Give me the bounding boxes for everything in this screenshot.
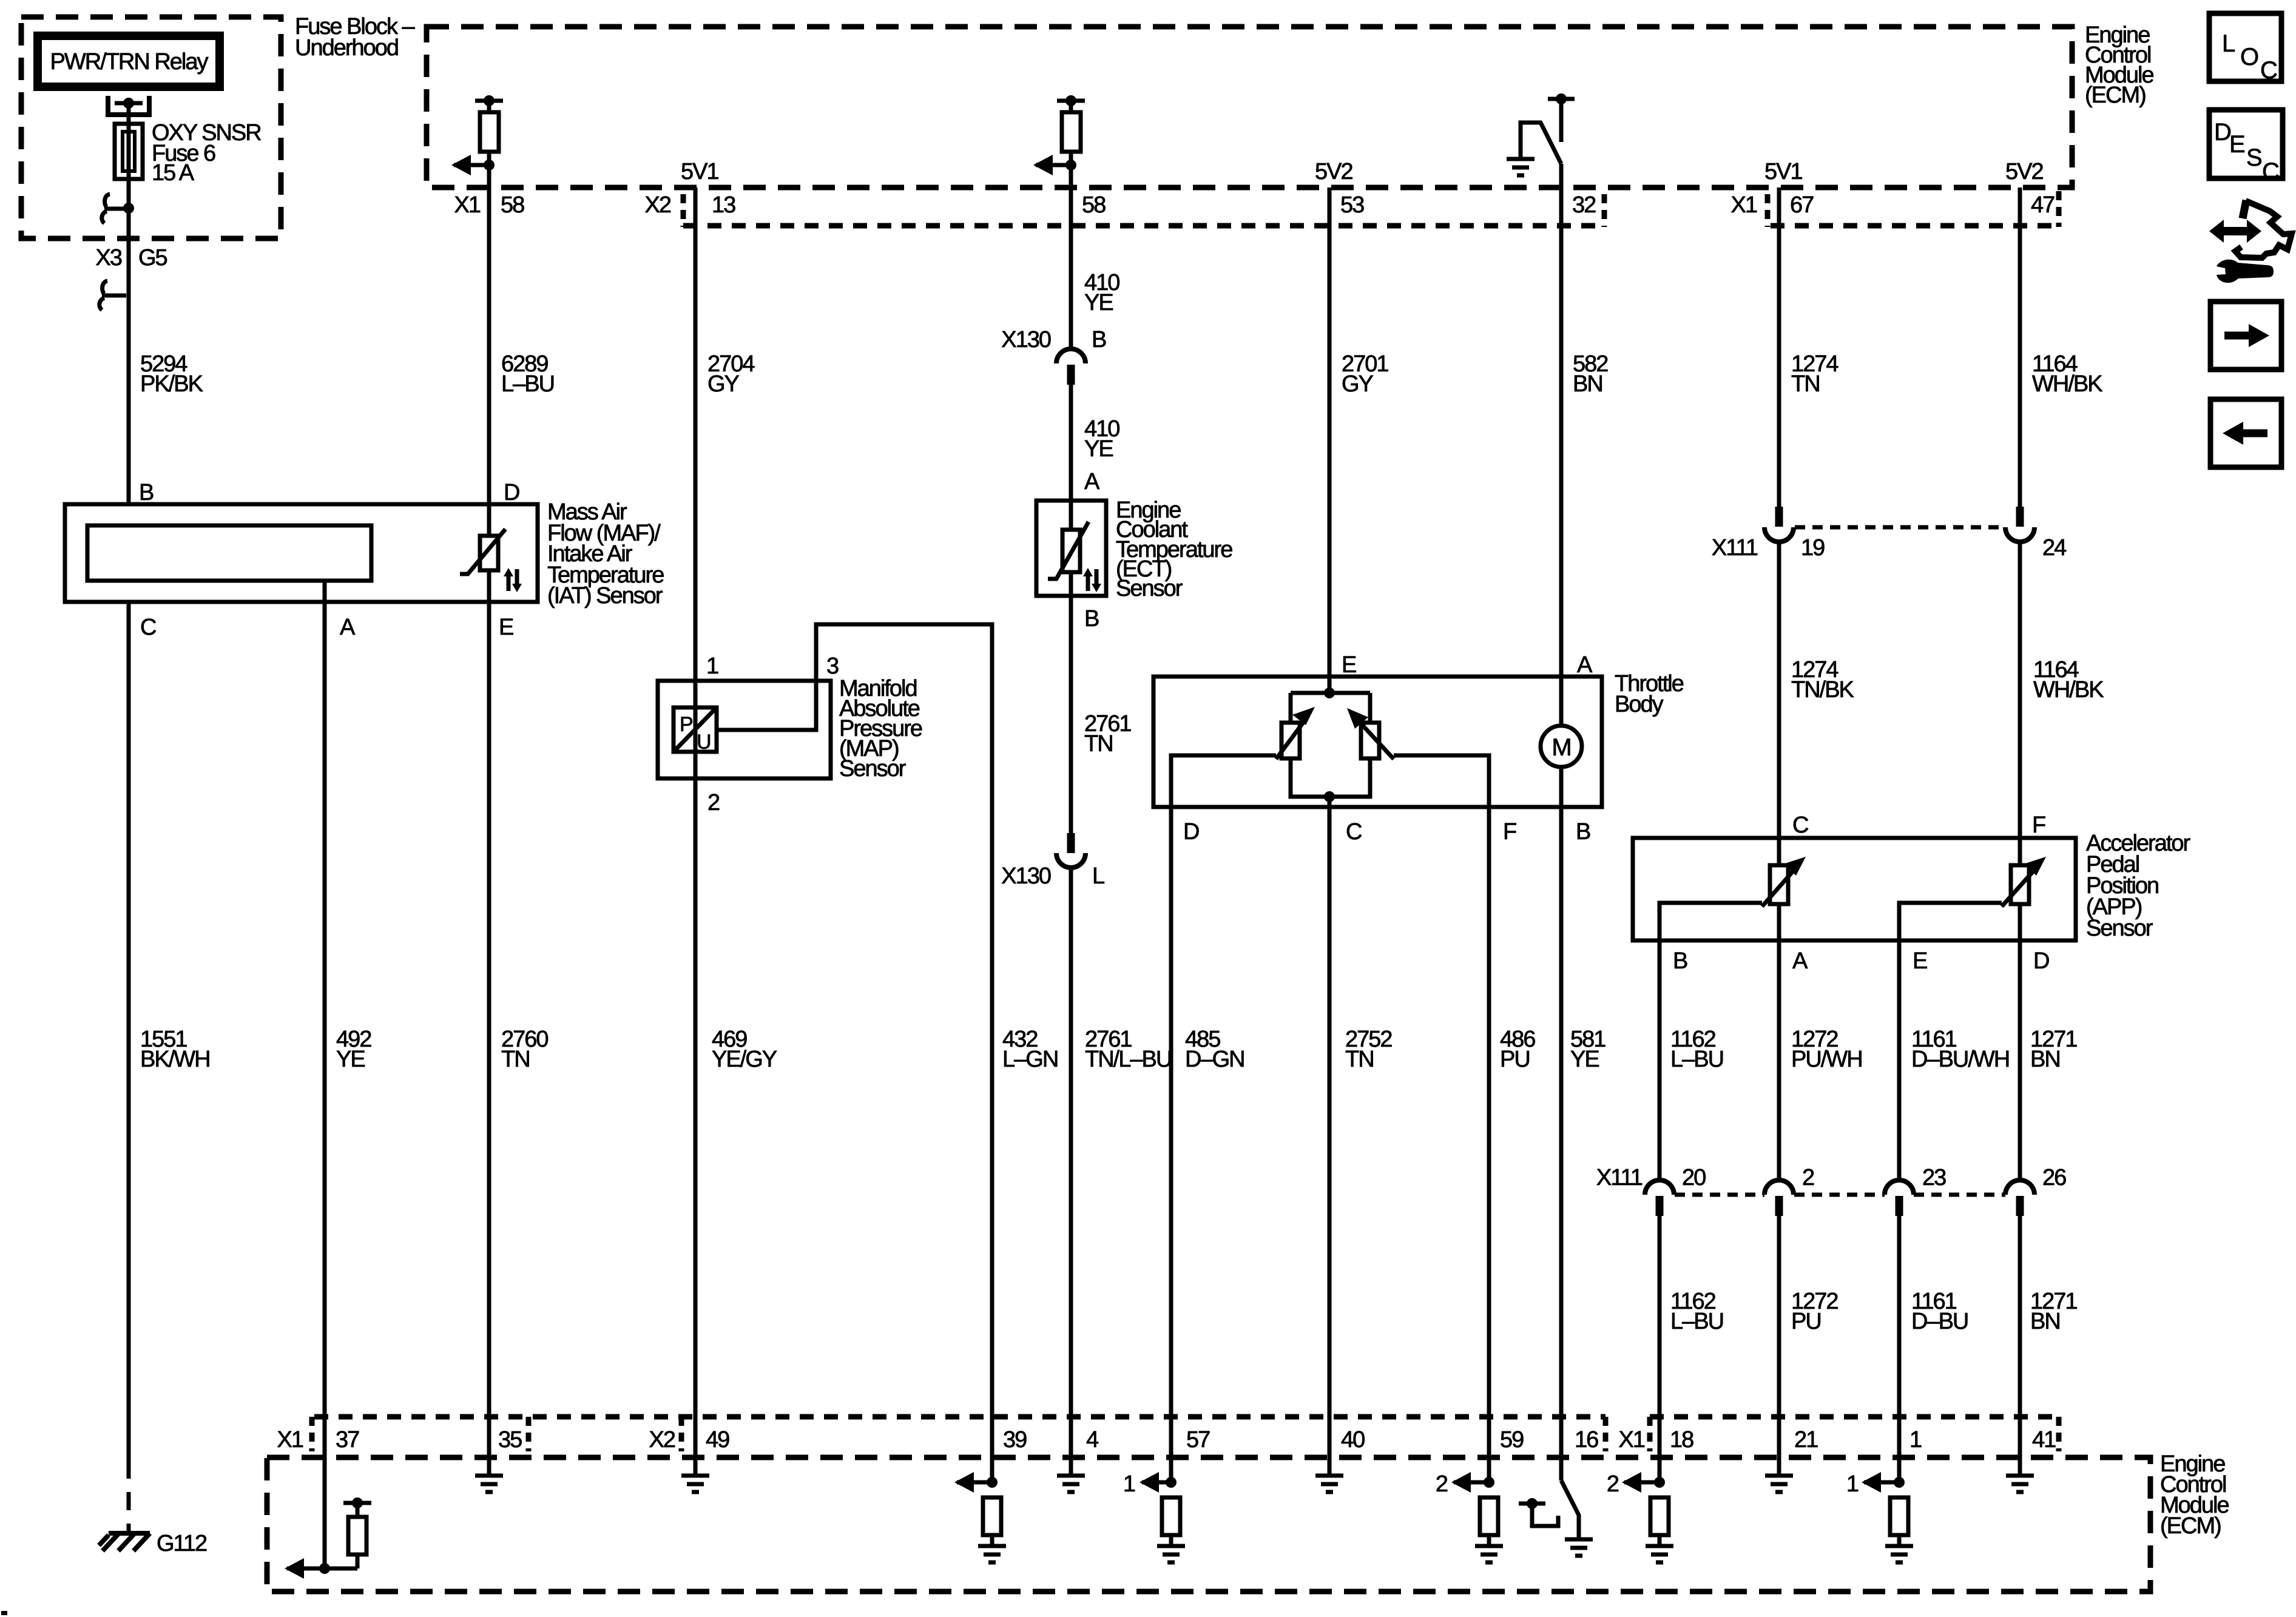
svg-text:41: 41 <box>2032 1427 2056 1453</box>
svg-text:S: S <box>2246 144 2261 171</box>
svg-text:1: 1 <box>1909 1427 1922 1453</box>
svg-text:(ECM): (ECM) <box>2085 83 2146 108</box>
svg-text:L–BU: L–BU <box>1670 1309 1723 1334</box>
svg-text:23: 23 <box>1922 1165 1946 1190</box>
svg-text:57: 57 <box>1186 1427 1210 1453</box>
svg-text:TN: TN <box>501 1047 530 1072</box>
svg-text:GY: GY <box>1342 371 1374 397</box>
svg-text:37: 37 <box>336 1427 359 1453</box>
svg-text:5V2: 5V2 <box>1315 159 1352 184</box>
svg-text:TN/L–BU: TN/L–BU <box>1085 1047 1171 1072</box>
svg-text:E: E <box>1342 652 1356 678</box>
svg-text:BN: BN <box>1573 371 1602 397</box>
svg-text:B: B <box>1673 948 1687 974</box>
svg-text:2: 2 <box>1607 1471 1619 1497</box>
svg-text:16: 16 <box>1575 1427 1598 1453</box>
svg-text:YE: YE <box>336 1047 365 1072</box>
svg-text:(ECM): (ECM) <box>2160 1513 2221 1539</box>
svg-text:D: D <box>504 480 519 505</box>
svg-text:(IAT) Sensor: (IAT) Sensor <box>547 583 663 609</box>
svg-text:G112: G112 <box>157 1531 207 1556</box>
svg-text:58: 58 <box>1082 192 1106 218</box>
svg-text:PWR/TRN Relay: PWR/TRN Relay <box>50 49 208 75</box>
svg-text:F: F <box>2032 812 2045 838</box>
svg-text:TN: TN <box>1345 1047 1374 1072</box>
svg-text:Body: Body <box>1615 692 1664 717</box>
svg-text:GY: GY <box>707 371 740 397</box>
svg-text:67: 67 <box>1790 192 1814 218</box>
svg-text:B: B <box>1576 819 1590 845</box>
svg-text:L: L <box>2222 30 2235 57</box>
svg-text:TN/BK: TN/BK <box>1791 677 1854 703</box>
svg-text:X1: X1 <box>1731 192 1757 218</box>
svg-text:2: 2 <box>1802 1165 1814 1190</box>
svg-text:F: F <box>1503 819 1516 845</box>
svg-text:E: E <box>1913 948 1927 974</box>
svg-text:C: C <box>1792 812 1808 838</box>
svg-text:2: 2 <box>1436 1471 1448 1497</box>
svg-text:C: C <box>140 615 156 640</box>
svg-text:47: 47 <box>2031 192 2055 218</box>
svg-text:C: C <box>2262 158 2279 185</box>
svg-text:2: 2 <box>707 790 720 815</box>
svg-text:A: A <box>1792 948 1808 974</box>
svg-text:B: B <box>1084 606 1099 632</box>
svg-text:4: 4 <box>1086 1427 1099 1453</box>
svg-text:YE: YE <box>1084 290 1113 316</box>
svg-text:C: C <box>1346 819 1362 845</box>
svg-text:P: P <box>680 713 692 736</box>
svg-text:21: 21 <box>1794 1427 1818 1453</box>
svg-text:E: E <box>499 615 513 640</box>
svg-text:L–BU: L–BU <box>1670 1047 1723 1072</box>
svg-text:X111: X111 <box>1596 1165 1643 1190</box>
svg-text:Sensor: Sensor <box>1116 576 1183 601</box>
svg-text:1: 1 <box>1123 1471 1135 1497</box>
svg-text:49: 49 <box>706 1427 729 1453</box>
svg-text:D: D <box>2033 948 2049 974</box>
svg-text:PU: PU <box>1500 1047 1530 1072</box>
svg-text:13: 13 <box>712 192 735 218</box>
svg-text:WH/BK: WH/BK <box>2032 371 2102 397</box>
svg-text:58: 58 <box>501 192 524 218</box>
svg-text:D–BU: D–BU <box>1911 1309 1968 1334</box>
svg-text:L–BU: L–BU <box>501 371 554 397</box>
svg-text:BN: BN <box>2030 1309 2060 1334</box>
svg-text:WH/BK: WH/BK <box>2033 677 2104 703</box>
svg-text:M: M <box>1551 734 1570 761</box>
svg-text:B: B <box>1092 327 1106 353</box>
svg-text:32: 32 <box>1572 192 1596 218</box>
svg-text:40: 40 <box>1341 1427 1365 1453</box>
svg-text:X2: X2 <box>649 1427 675 1453</box>
svg-text:D: D <box>2214 119 2230 146</box>
svg-text:5V1: 5V1 <box>1764 159 1802 184</box>
svg-text:19: 19 <box>1801 535 1825 561</box>
svg-text:BK/WH: BK/WH <box>140 1047 210 1072</box>
svg-text:A: A <box>340 615 356 640</box>
svg-text:D–BU/WH: D–BU/WH <box>1911 1047 2009 1072</box>
svg-text:A: A <box>1084 469 1100 495</box>
svg-text:59: 59 <box>1500 1427 1524 1453</box>
svg-text:D: D <box>1183 819 1199 845</box>
svg-text:YE: YE <box>1570 1047 1599 1072</box>
svg-text:L–GN: L–GN <box>1002 1047 1058 1072</box>
svg-text:X2: X2 <box>645 192 671 218</box>
svg-text:1: 1 <box>706 653 718 679</box>
svg-text:Underhood: Underhood <box>295 35 398 61</box>
svg-text:YE/GY: YE/GY <box>712 1047 777 1072</box>
svg-text:B: B <box>139 480 154 505</box>
svg-text:O: O <box>2240 44 2258 70</box>
svg-text:E: E <box>2229 131 2244 158</box>
svg-text:15 A: 15 A <box>152 160 195 186</box>
svg-text:G5: G5 <box>138 245 167 271</box>
svg-text:Sensor: Sensor <box>2086 916 2153 941</box>
svg-text:C: C <box>2260 57 2277 84</box>
svg-text:PU: PU <box>1791 1309 1821 1334</box>
svg-text:53: 53 <box>1340 192 1364 218</box>
svg-text:Sensor: Sensor <box>839 756 907 781</box>
svg-text:L: L <box>1092 863 1104 889</box>
svg-text:X3: X3 <box>96 245 122 271</box>
svg-text:TN: TN <box>1084 731 1113 757</box>
svg-text:1: 1 <box>1846 1471 1859 1497</box>
svg-text:X130: X130 <box>1001 327 1051 353</box>
svg-text:A: A <box>1577 652 1593 678</box>
svg-text:D–GN: D–GN <box>1185 1047 1244 1072</box>
svg-text:X130: X130 <box>1001 863 1051 889</box>
svg-text:5V1: 5V1 <box>681 159 718 184</box>
svg-text:YE: YE <box>1084 436 1113 462</box>
svg-text:3: 3 <box>826 653 839 679</box>
svg-text:X1: X1 <box>277 1427 303 1453</box>
svg-text:39: 39 <box>1003 1427 1027 1453</box>
svg-text:20: 20 <box>1682 1165 1706 1190</box>
svg-text:X111: X111 <box>1712 535 1758 561</box>
svg-text:26: 26 <box>2042 1165 2066 1190</box>
svg-text:X1: X1 <box>1619 1427 1645 1453</box>
svg-text:35: 35 <box>498 1427 522 1453</box>
svg-text:PU/WH: PU/WH <box>1791 1047 1862 1072</box>
svg-text:BN: BN <box>2030 1047 2060 1072</box>
svg-text:5V2: 5V2 <box>2005 159 2043 184</box>
svg-text:TN: TN <box>1791 371 1820 397</box>
svg-text:X1: X1 <box>454 192 481 218</box>
svg-text:PK/BK: PK/BK <box>140 371 203 397</box>
svg-text:24: 24 <box>2042 535 2067 561</box>
svg-text:18: 18 <box>1670 1427 1693 1453</box>
svg-text:U: U <box>697 731 711 754</box>
